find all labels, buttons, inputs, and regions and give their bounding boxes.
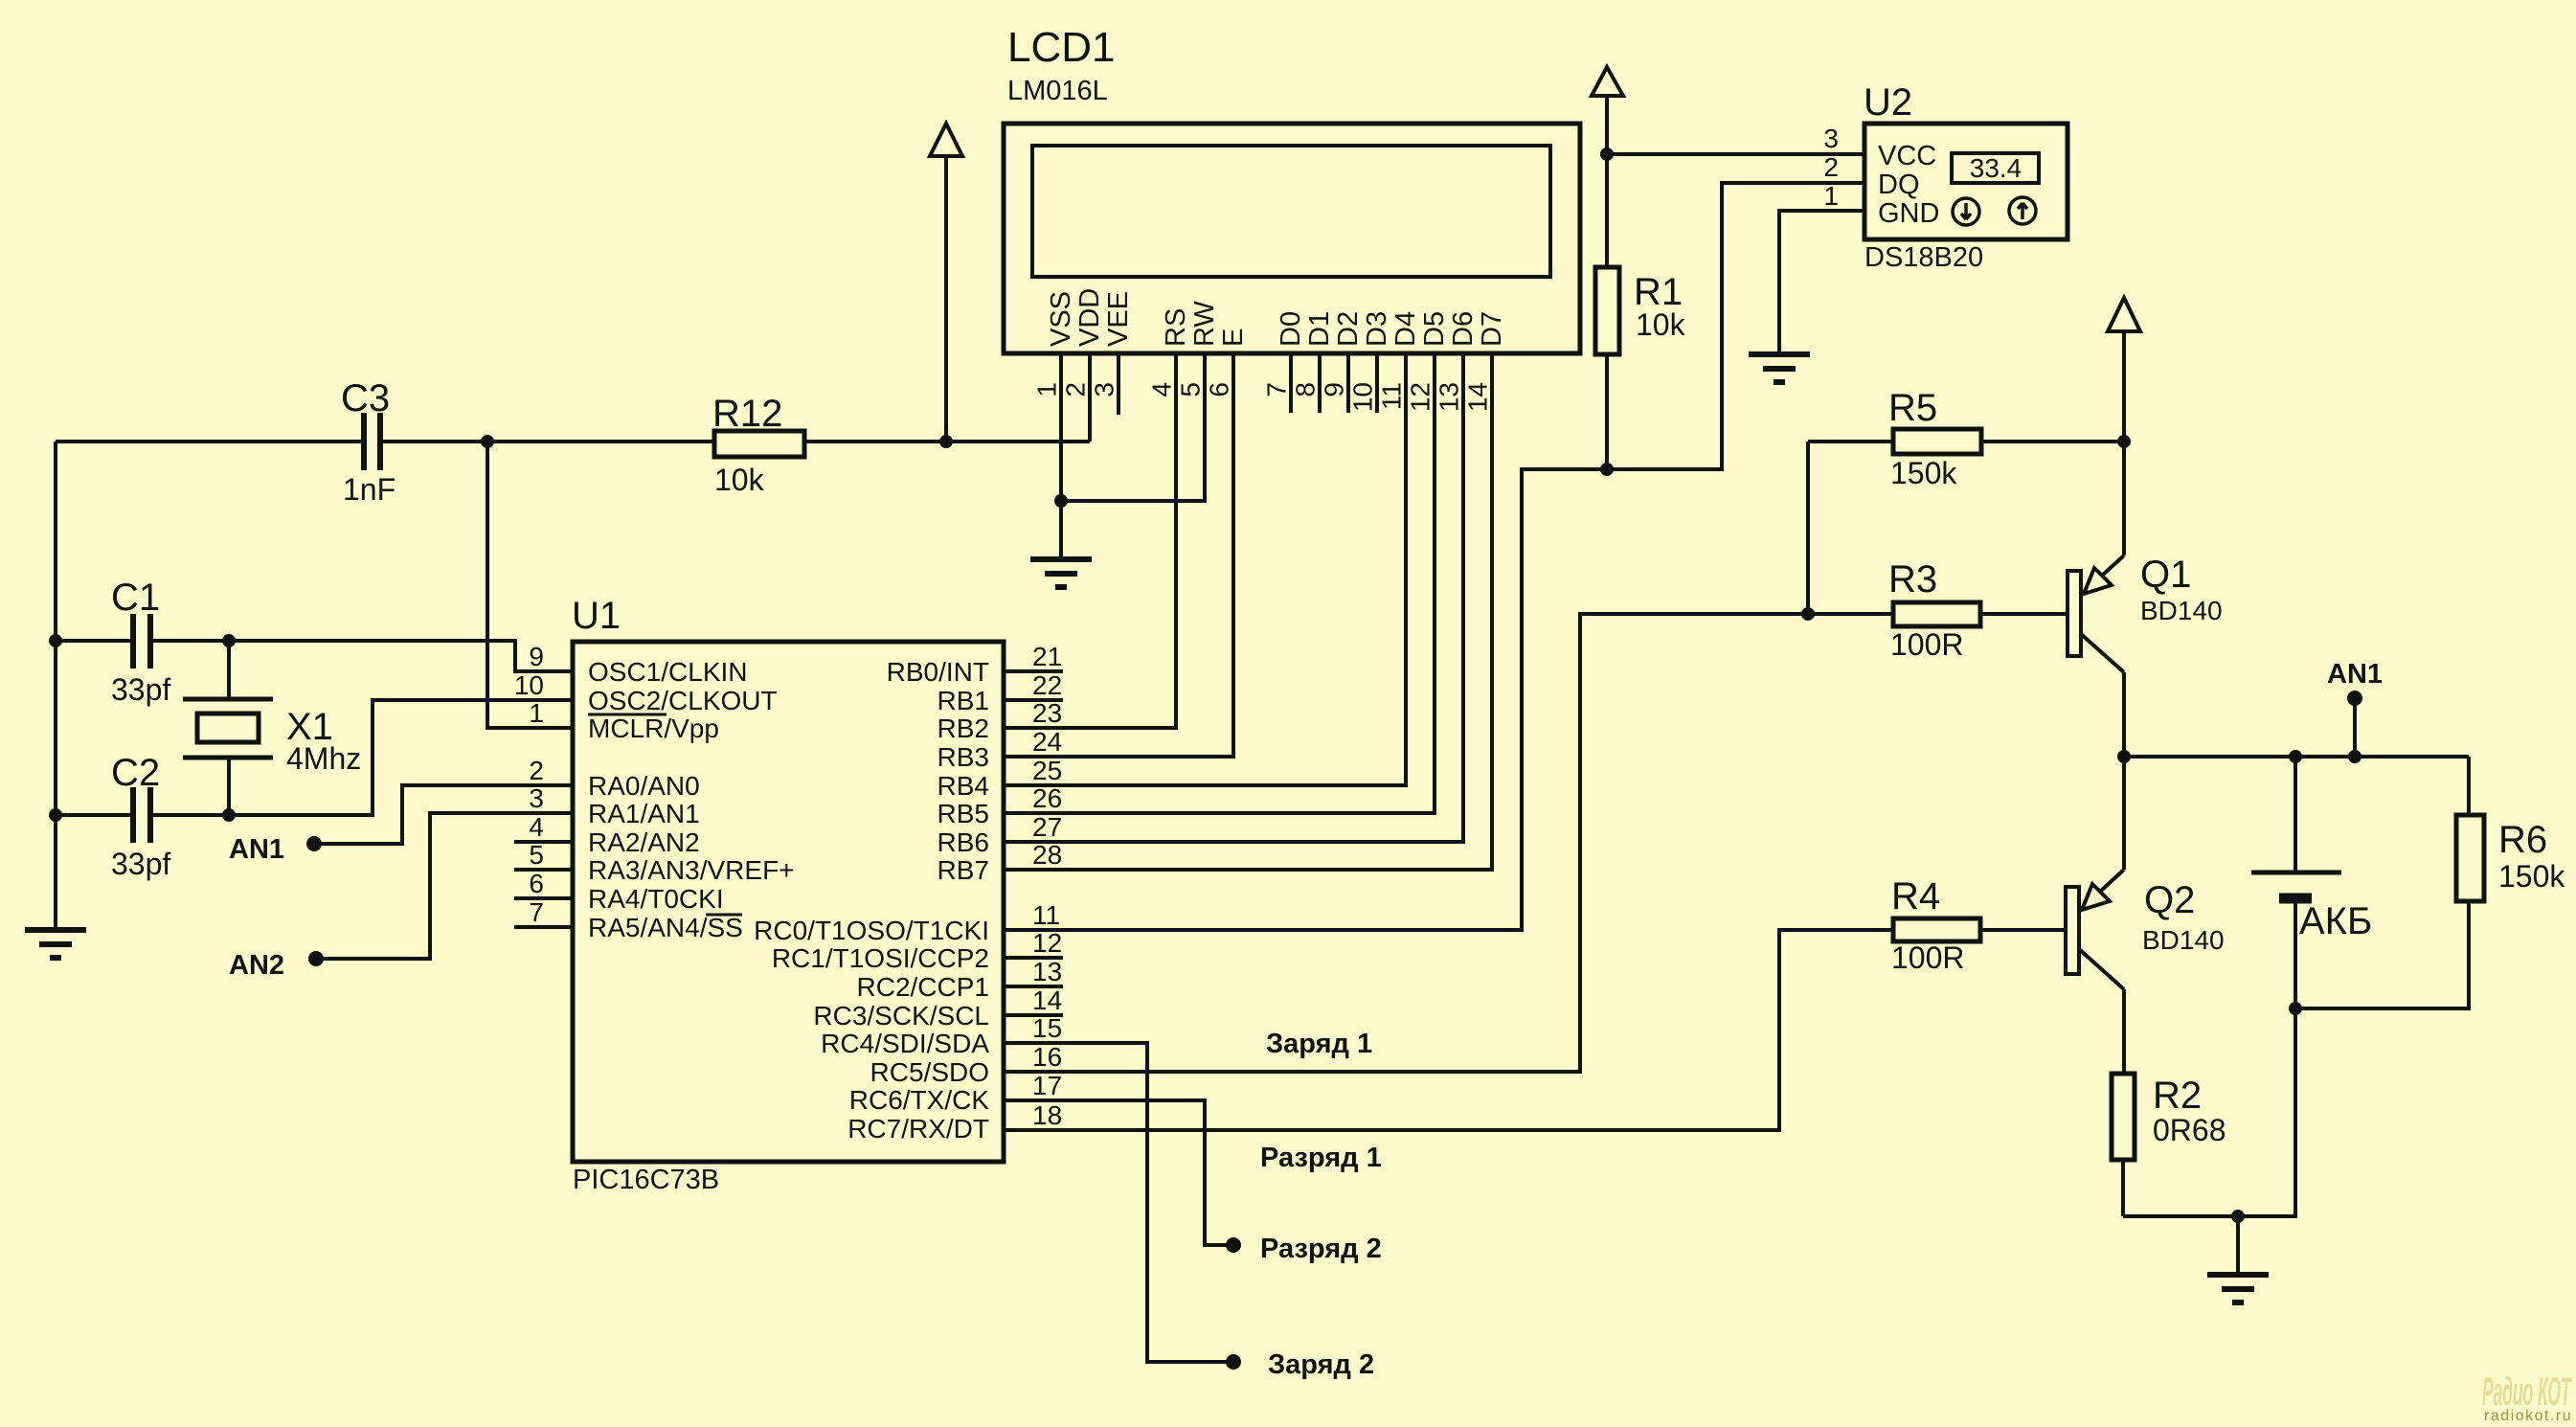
svg-text:C3: C3	[341, 377, 390, 419]
svg-text:D7: D7	[1477, 311, 1507, 347]
svg-text:13: 13	[1435, 382, 1464, 412]
svg-text:3: 3	[529, 783, 544, 813]
svg-text:Заряд 2: Заряд 2	[1268, 1349, 1374, 1380]
svg-text:10: 10	[514, 670, 544, 700]
svg-text:17: 17	[1032, 1071, 1062, 1100]
svg-text:9: 9	[529, 642, 544, 671]
svg-text:D4: D4	[1390, 311, 1421, 347]
svg-text:RB2: RB2	[938, 713, 989, 743]
svg-text:radiokot.ru: radiokot.ru	[2484, 1408, 2572, 1424]
svg-text:RC6/TX/CK: RC6/TX/CK	[849, 1085, 990, 1115]
svg-text:D1: D1	[1304, 311, 1335, 347]
svg-text:24: 24	[1032, 727, 1062, 757]
svg-text:15: 15	[1032, 1013, 1062, 1043]
svg-text:RB7: RB7	[938, 855, 989, 885]
svg-text:1: 1	[1823, 181, 1839, 211]
svg-text:16: 16	[1032, 1042, 1062, 1072]
svg-text:4: 4	[1147, 382, 1177, 397]
svg-text:RC1/T1OSI/CCP2: RC1/T1OSI/CCP2	[772, 943, 989, 973]
svg-text:LCD1: LCD1	[1007, 24, 1116, 71]
svg-text:RS: RS	[1161, 308, 1191, 347]
svg-text:3: 3	[1090, 382, 1119, 397]
svg-text:RC2/CCP1: RC2/CCP1	[857, 972, 989, 1002]
svg-text:Q2: Q2	[2144, 879, 2195, 921]
svg-text:100R: 100R	[1891, 940, 1965, 975]
svg-text:VSS: VSS	[1046, 291, 1076, 347]
svg-text:OSC1/CLKIN: OSC1/CLKIN	[588, 657, 748, 687]
svg-text:8: 8	[1291, 382, 1321, 397]
svg-text:D5: D5	[1419, 311, 1450, 347]
svg-text:RB5: RB5	[938, 799, 989, 828]
svg-text:33pf: 33pf	[111, 672, 170, 707]
svg-text:DS18B20: DS18B20	[1864, 242, 1983, 273]
svg-text:AN2: AN2	[229, 950, 284, 981]
svg-text:33.4: 33.4	[1970, 153, 2022, 183]
svg-text:C2: C2	[111, 752, 160, 794]
svg-text:LM016L: LM016L	[1007, 76, 1108, 106]
svg-text:6: 6	[1205, 382, 1234, 397]
svg-text:150k: 150k	[1890, 456, 1957, 490]
svg-text:6: 6	[529, 869, 544, 898]
svg-text:21: 21	[1032, 642, 1062, 671]
svg-text:7: 7	[1262, 382, 1292, 397]
svg-text:AN1: AN1	[229, 834, 284, 865]
svg-text:5: 5	[529, 840, 544, 870]
svg-text:1: 1	[1032, 382, 1062, 397]
svg-text:RA3/AN3/VREF+: RA3/AN3/VREF+	[588, 855, 795, 885]
svg-text:0R68: 0R68	[2153, 1113, 2226, 1147]
svg-text:BD140: BD140	[2142, 925, 2225, 955]
svg-text:GND: GND	[1878, 198, 1939, 229]
svg-text:R2: R2	[2153, 1075, 2202, 1117]
svg-text:C1: C1	[111, 577, 160, 619]
svg-text:18: 18	[1032, 1100, 1062, 1130]
svg-text:R4: R4	[1891, 875, 1940, 917]
svg-text:D2: D2	[1333, 311, 1364, 347]
svg-text:R12: R12	[712, 393, 782, 435]
svg-text:Разряд 2: Разряд 2	[1260, 1234, 1382, 1264]
svg-text:5: 5	[1176, 382, 1206, 397]
svg-text:14: 14	[1463, 382, 1493, 412]
svg-text:22: 22	[1032, 670, 1062, 700]
svg-text:Заряд 1: Заряд 1	[1266, 1029, 1372, 1059]
svg-text:2: 2	[1061, 382, 1091, 397]
svg-text:RC5/SDO: RC5/SDO	[870, 1057, 989, 1087]
svg-text:RB3: RB3	[938, 742, 989, 772]
svg-text:10k: 10k	[1636, 307, 1686, 342]
svg-text:23: 23	[1032, 698, 1062, 728]
svg-text:4Mhz: 4Mhz	[286, 741, 361, 776]
svg-text:11: 11	[1032, 900, 1060, 930]
svg-text:10: 10	[1348, 382, 1378, 412]
svg-text:1: 1	[529, 698, 544, 728]
svg-text:R5: R5	[1888, 387, 1937, 429]
svg-text:VCC: VCC	[1878, 141, 1936, 171]
svg-text:RC0/T1OSO/T1CKI: RC0/T1OSO/T1CKI	[754, 916, 989, 945]
svg-text:9: 9	[1320, 382, 1349, 397]
svg-text:АКБ: АКБ	[2299, 900, 2372, 942]
svg-text:U2: U2	[1864, 81, 1912, 124]
svg-text:10k: 10k	[714, 463, 765, 497]
svg-text:RA5/AN4/SS: RA5/AN4/SS	[588, 913, 743, 942]
svg-text:3: 3	[1823, 124, 1839, 153]
svg-text:RA0/AN0: RA0/AN0	[588, 771, 700, 801]
svg-text:1nF: 1nF	[343, 472, 395, 507]
svg-text:BD140: BD140	[2140, 596, 2223, 625]
svg-text:R6: R6	[2498, 819, 2547, 861]
svg-text:RB1: RB1	[938, 686, 989, 715]
svg-text:4: 4	[529, 812, 544, 842]
svg-text:MCLR/Vpp: MCLR/Vpp	[588, 713, 719, 743]
svg-text:D3: D3	[1362, 311, 1392, 347]
svg-text:28: 28	[1032, 840, 1062, 870]
svg-text:33pf: 33pf	[111, 847, 170, 881]
svg-text:VEE: VEE	[1103, 291, 1134, 347]
svg-text:AN1: AN1	[2327, 659, 2383, 690]
svg-text:RA4/T0CKI: RA4/T0CKI	[588, 884, 724, 914]
svg-text:26: 26	[1032, 783, 1062, 813]
svg-text:RC4/SDI/SDA: RC4/SDI/SDA	[821, 1029, 989, 1058]
svg-text:E: E	[1218, 328, 1249, 347]
svg-text:RA2/AN2: RA2/AN2	[588, 827, 700, 857]
svg-text:Разряд 1: Разряд 1	[1260, 1143, 1382, 1173]
svg-text:12: 12	[1032, 928, 1062, 958]
svg-text:RB6: RB6	[938, 827, 989, 857]
svg-text:DQ: DQ	[1878, 170, 1920, 200]
svg-text:150k: 150k	[2498, 859, 2565, 894]
svg-text:D0: D0	[1276, 311, 1306, 347]
svg-text:27: 27	[1032, 812, 1062, 842]
svg-text:14: 14	[1032, 985, 1062, 1015]
svg-text:OSC2/CLKOUT: OSC2/CLKOUT	[588, 686, 778, 715]
svg-text:2: 2	[529, 756, 544, 785]
svg-text:RA1/AN1: RA1/AN1	[588, 799, 700, 828]
svg-text:VDD: VDD	[1074, 288, 1105, 347]
svg-text:PIC16C73B: PIC16C73B	[573, 1165, 719, 1195]
svg-text:12: 12	[1406, 382, 1435, 412]
svg-text:25: 25	[1032, 756, 1062, 785]
svg-text:100R: 100R	[1890, 627, 1964, 662]
svg-text:Q1: Q1	[2140, 554, 2191, 596]
svg-text:RC7/RX/DT: RC7/RX/DT	[847, 1114, 989, 1144]
svg-text:R3: R3	[1888, 558, 1937, 600]
svg-text:RW: RW	[1189, 301, 1220, 347]
svg-text:RB0/INT: RB0/INT	[887, 657, 989, 687]
svg-text:RC3/SCK/SCL: RC3/SCK/SCL	[813, 1001, 989, 1031]
svg-text:D6: D6	[1448, 311, 1479, 347]
svg-text:2: 2	[1823, 152, 1839, 182]
svg-text:U1: U1	[572, 595, 621, 637]
svg-text:13: 13	[1032, 957, 1062, 986]
svg-text:11: 11	[1377, 382, 1407, 410]
svg-text:7: 7	[529, 897, 544, 927]
svg-text:RB4: RB4	[938, 771, 989, 801]
